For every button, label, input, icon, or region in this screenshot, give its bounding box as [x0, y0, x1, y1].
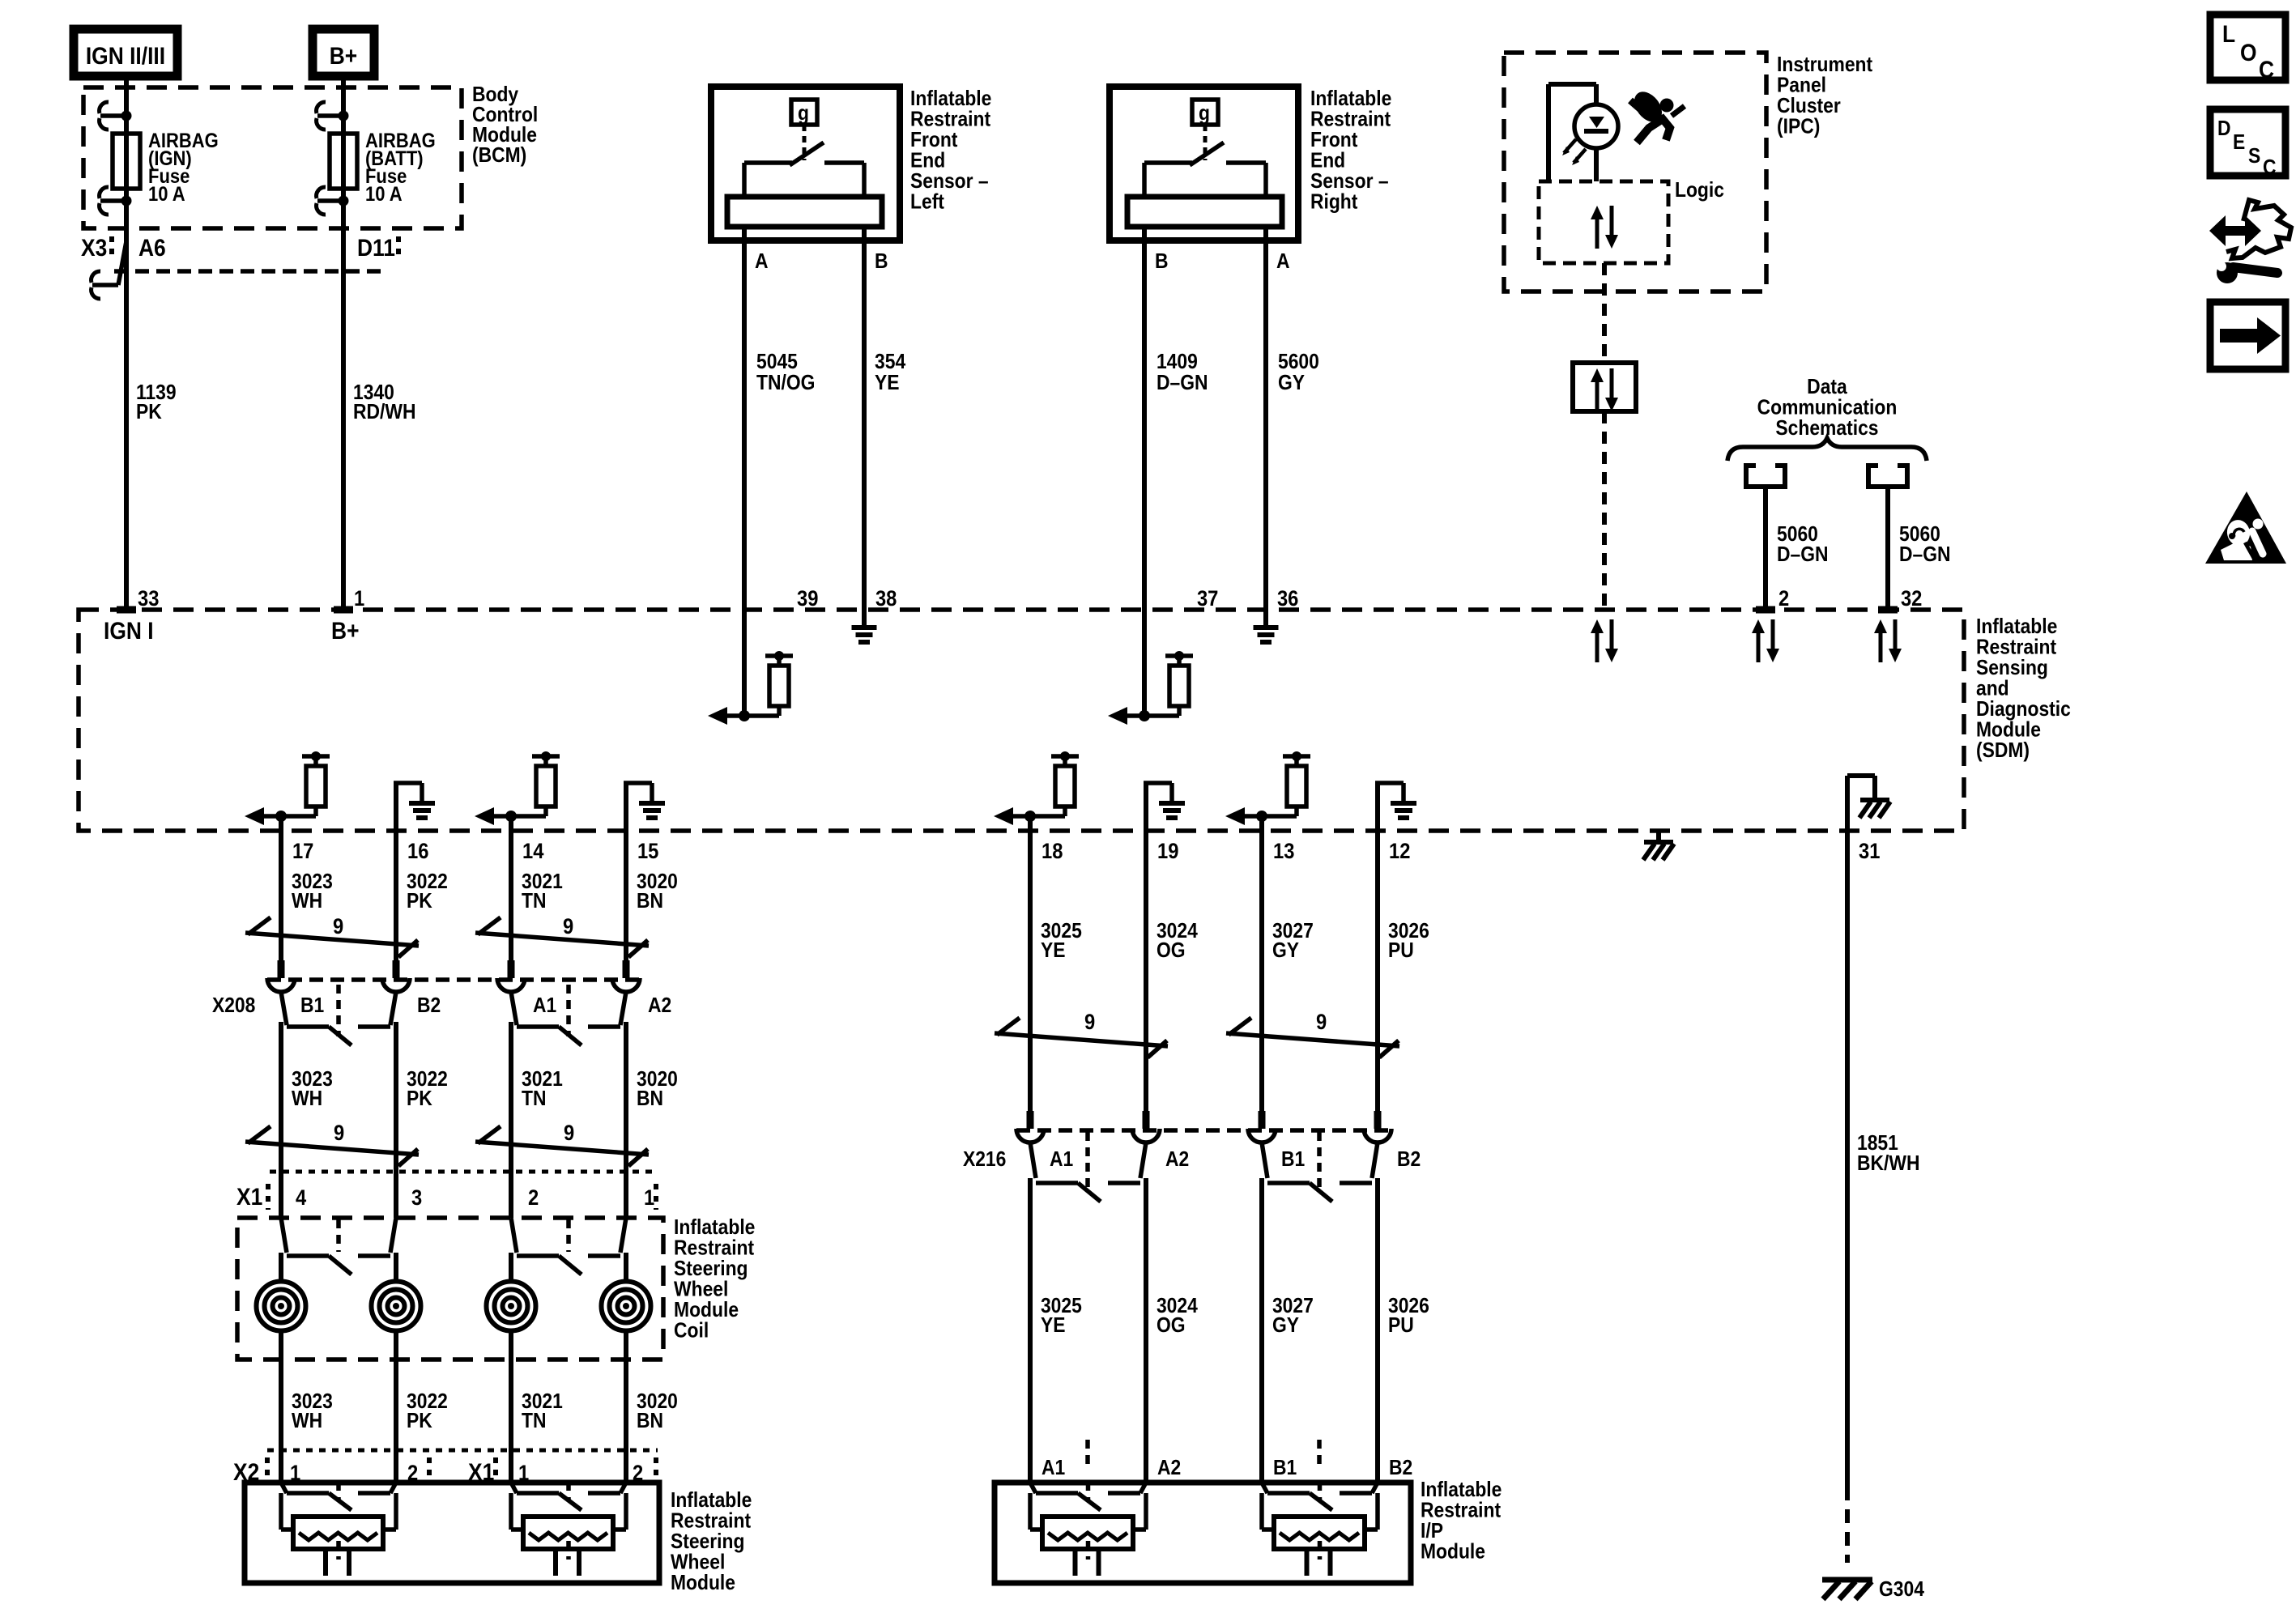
svg-text:PK: PK [407, 1087, 432, 1111]
svg-text:B2: B2 [1397, 1148, 1421, 1172]
svg-text:RD/WH: RD/WH [353, 401, 415, 424]
svg-text:Inflatable: Inflatable [1310, 87, 1391, 111]
svg-text:31: 31 [1859, 840, 1880, 864]
svg-text:YE: YE [1041, 939, 1066, 963]
svg-text:Diagnostic: Diagnostic [1976, 698, 2071, 721]
svg-text:End: End [910, 149, 945, 172]
svg-text:1: 1 [354, 587, 364, 611]
svg-text:A1: A1 [1050, 1148, 1073, 1172]
svg-text:Restraint: Restraint [910, 108, 990, 131]
svg-text:BN: BN [637, 890, 663, 913]
svg-text:A2: A2 [648, 994, 671, 1018]
svg-text:B+: B+ [331, 616, 359, 644]
svg-text:B+: B+ [330, 41, 357, 69]
svg-text:PU: PU [1388, 939, 1414, 963]
svg-text:PK: PK [136, 401, 162, 424]
svg-text:PK: PK [407, 890, 432, 913]
svg-text:and: and [1976, 677, 2009, 700]
svg-text:BK/WH: BK/WH [1857, 1152, 1919, 1176]
svg-text:Inflatable: Inflatable [674, 1216, 755, 1240]
svg-text:GY: GY [1272, 1314, 1299, 1338]
svg-text:GY: GY [1272, 939, 1299, 963]
svg-text:GY: GY [1278, 372, 1305, 395]
svg-text:5600: 5600 [1278, 351, 1319, 374]
svg-text:BN: BN [637, 1087, 663, 1111]
svg-text:D: D [2217, 117, 2231, 141]
svg-text:B1: B1 [300, 994, 324, 1018]
svg-text:2: 2 [1778, 587, 1789, 611]
svg-text:32: 32 [1901, 587, 1922, 611]
svg-text:X3: X3 [81, 233, 107, 261]
svg-text:1: 1 [518, 1462, 529, 1486]
svg-text:14: 14 [522, 840, 543, 864]
svg-text:1: 1 [290, 1462, 300, 1486]
svg-text:9: 9 [1316, 1011, 1327, 1035]
svg-text:OG: OG [1157, 1314, 1186, 1338]
svg-text:g: g [798, 102, 809, 126]
svg-text:B: B [1155, 250, 1169, 274]
svg-text:10 A: 10 A [148, 183, 185, 206]
svg-text:A1: A1 [533, 994, 556, 1018]
svg-text:B2: B2 [417, 994, 441, 1018]
svg-text:39: 39 [797, 587, 818, 611]
svg-text:Sensor –: Sensor – [1310, 170, 1389, 194]
svg-text:Panel: Panel [1777, 74, 1826, 97]
svg-text:TN/OG: TN/OG [756, 372, 815, 395]
svg-text:Left: Left [910, 190, 944, 214]
svg-text:4: 4 [296, 1186, 306, 1211]
svg-text:Inflatable: Inflatable [1976, 615, 2057, 639]
svg-text:37: 37 [1197, 587, 1218, 611]
svg-text:A: A [1276, 250, 1290, 274]
svg-text:19: 19 [1157, 840, 1178, 864]
svg-text:YE: YE [1041, 1314, 1066, 1338]
svg-text:I/P: I/P [1421, 1520, 1443, 1543]
svg-text:TN: TN [522, 1087, 546, 1111]
svg-text:Cluster: Cluster [1777, 95, 1841, 118]
svg-text:A1: A1 [1042, 1457, 1065, 1480]
svg-text:D11: D11 [357, 233, 395, 261]
svg-text:(IPC): (IPC) [1777, 115, 1820, 138]
svg-text:2: 2 [407, 1462, 418, 1486]
svg-text:C: C [2259, 55, 2274, 83]
svg-text:IGN I: IGN I [104, 616, 154, 644]
svg-text:A2: A2 [1165, 1148, 1189, 1172]
svg-text:X2: X2 [233, 1457, 259, 1485]
svg-text:9: 9 [563, 915, 573, 939]
svg-text:A2: A2 [1157, 1457, 1181, 1480]
svg-text:18: 18 [1042, 840, 1063, 864]
svg-text:9: 9 [334, 1121, 344, 1146]
svg-text:36: 36 [1277, 587, 1298, 611]
svg-text:YE: YE [875, 372, 900, 395]
svg-text:G304: G304 [1879, 1578, 1924, 1602]
svg-text:9: 9 [333, 915, 343, 939]
svg-text:B: B [875, 250, 888, 274]
svg-text:Instrument: Instrument [1777, 53, 1872, 77]
svg-text:Restraint: Restraint [674, 1236, 754, 1260]
svg-text:A6: A6 [138, 233, 166, 261]
svg-text:Module: Module [1976, 718, 2041, 742]
svg-text:33: 33 [138, 587, 159, 611]
svg-text:Communication: Communication [1757, 396, 1898, 419]
svg-text:38: 38 [875, 587, 897, 611]
svg-text:X1: X1 [468, 1457, 494, 1485]
svg-text:D–GN: D–GN [1157, 372, 1208, 395]
svg-text:Wheel: Wheel [671, 1551, 725, 1574]
svg-text:Logic: Logic [1675, 179, 1724, 202]
svg-text:TN: TN [522, 890, 546, 913]
svg-text:D–GN: D–GN [1777, 543, 1829, 567]
svg-text:2: 2 [633, 1462, 643, 1486]
svg-text:A: A [755, 250, 769, 274]
svg-text:Module: Module [671, 1572, 735, 1595]
svg-text:g: g [1199, 102, 1210, 126]
svg-text:Data: Data [1807, 376, 1847, 399]
svg-text:9: 9 [1084, 1011, 1095, 1035]
svg-text:12: 12 [1389, 840, 1410, 864]
svg-text:Steering: Steering [671, 1530, 744, 1554]
svg-text:Inflatable: Inflatable [671, 1489, 752, 1513]
svg-text:X208: X208 [212, 994, 255, 1018]
svg-text:9: 9 [564, 1121, 574, 1146]
svg-text:354: 354 [875, 351, 906, 374]
svg-text:Schematics: Schematics [1775, 417, 1878, 440]
svg-text:Restraint: Restraint [1421, 1499, 1501, 1522]
svg-text:B1: B1 [1281, 1148, 1305, 1172]
svg-text:Coil: Coil [674, 1319, 709, 1343]
svg-text:17: 17 [292, 840, 313, 864]
svg-text:Front: Front [1310, 129, 1357, 152]
svg-text:Restraint: Restraint [671, 1509, 751, 1533]
svg-text:S: S [2248, 145, 2260, 168]
svg-text:E: E [2233, 131, 2245, 155]
svg-text:Sensing: Sensing [1976, 657, 2048, 680]
svg-text:End: End [1310, 149, 1345, 172]
svg-text:Front: Front [910, 129, 957, 152]
svg-text:Module: Module [674, 1299, 739, 1322]
svg-text:Inflatable: Inflatable [910, 87, 991, 111]
svg-text:WH: WH [292, 1087, 322, 1111]
svg-text:13: 13 [1273, 840, 1294, 864]
svg-text:(BCM): (BCM) [472, 144, 526, 168]
svg-text:Restraint: Restraint [1310, 108, 1391, 131]
svg-text:15: 15 [637, 840, 658, 864]
svg-text:C: C [2263, 156, 2277, 180]
svg-text:B1: B1 [1273, 1457, 1297, 1480]
svg-text:TN: TN [522, 1410, 546, 1433]
svg-text:OG: OG [1157, 939, 1186, 963]
svg-text:5045: 5045 [756, 351, 798, 374]
svg-text:Wheel: Wheel [674, 1278, 728, 1301]
svg-text:Module: Module [1421, 1540, 1485, 1564]
svg-text:X1: X1 [236, 1182, 262, 1210]
svg-text:WH: WH [292, 890, 322, 913]
svg-text:Restraint: Restraint [1976, 636, 2056, 659]
svg-text:B2: B2 [1389, 1457, 1412, 1480]
svg-text:O: O [2240, 38, 2257, 66]
svg-text:2: 2 [528, 1186, 539, 1211]
svg-text:PK: PK [407, 1410, 432, 1433]
svg-text:(SDM): (SDM) [1976, 739, 2030, 763]
svg-text:Sensor –: Sensor – [910, 170, 989, 194]
svg-text:Steering: Steering [674, 1257, 748, 1281]
svg-text:PU: PU [1388, 1314, 1414, 1338]
svg-text:L: L [2222, 19, 2235, 47]
svg-text:16: 16 [407, 840, 428, 864]
svg-text:Right: Right [1310, 190, 1357, 214]
svg-text:3: 3 [411, 1186, 422, 1211]
svg-text:BN: BN [637, 1410, 663, 1433]
svg-text:X216: X216 [963, 1148, 1006, 1172]
svg-text:Inflatable: Inflatable [1421, 1479, 1502, 1502]
svg-text:1409: 1409 [1157, 351, 1198, 374]
svg-text:IGN II/III: IGN II/III [86, 41, 165, 69]
svg-text:WH: WH [292, 1410, 322, 1433]
svg-text:D–GN: D–GN [1899, 543, 1951, 567]
svg-text:10 A: 10 A [365, 183, 403, 206]
svg-text:1: 1 [644, 1186, 654, 1211]
